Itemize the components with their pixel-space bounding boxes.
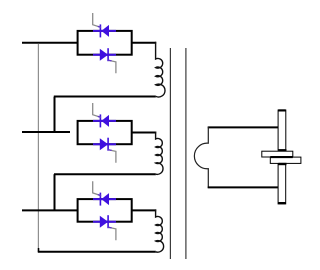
- wire bus bottom black stub: [38, 248, 40, 252]
- thyristor module box Q3: [78, 199, 132, 222]
- wire box2 output: [132, 132, 157, 134]
- winding W1 primary coil: [156, 42, 165, 97]
- wire phase A input: [22, 42, 78, 44]
- thyristor Q1a cathode bar: [99, 24, 101, 37]
- thyristor Q2a gate tip: [98, 116, 101, 117]
- thyristor Q1a lead: [93, 30, 116, 32]
- thyristor Q3a gate lead: [93, 181, 101, 195]
- thyristor Q3b gate tip: [108, 226, 111, 229]
- thyristor Q1a gate tip: [98, 26, 101, 27]
- thyristor module box Q1: [78, 31, 132, 55]
- thyristor Q1b gate tip: [108, 59, 111, 62]
- thyristor Q1b triangle: [100, 49, 108, 61]
- thyristor Q2a gate lead: [93, 103, 101, 117]
- battery junction bar top: [278, 149, 286, 151]
- transformer core line 1: [169, 48, 171, 259]
- wire W1 bottom: [54, 96, 156, 98]
- wire W2 bottom: [54, 173, 156, 175]
- wire box3 output: [132, 209, 157, 211]
- thyristor Q2a lead: [93, 120, 116, 122]
- battery stem upper: [278, 110, 286, 150]
- thyristor Q3a cathode bar: [99, 193, 101, 206]
- battery plate lower: [270, 157, 301, 163]
- winding W3 primary coil: [156, 209, 164, 252]
- thyristor Q2a cathode bar: [99, 114, 101, 127]
- thyristor Q1b gate lead: [108, 60, 116, 73]
- wire return bus (gray vertical): [37, 44, 39, 249]
- transformer core line 2: [185, 48, 187, 259]
- thyristor Q3b cathode bar: [107, 215, 109, 228]
- battery plate upper: [262, 151, 293, 157]
- thyristor Q3b triangle: [100, 216, 108, 228]
- battery stem upper top cap: [278, 109, 285, 111]
- thyristor Q3a triangle: [101, 193, 109, 205]
- wire W1 to phase B: [54, 97, 56, 133]
- wire phase B input: [22, 131, 70, 133]
- thyristor Q2b gate tip: [108, 149, 111, 152]
- winding W4 secondary: [194, 127, 208, 188]
- wire secondary bottom: [208, 186, 278, 188]
- wire secondary top: [208, 126, 278, 128]
- battery stem lower: [278, 163, 286, 204]
- thyristor Q3a gate tip: [98, 195, 101, 196]
- battery stem lower bottom cap: [278, 202, 285, 204]
- wire box1 output: [132, 42, 157, 44]
- thyristor Q3b lead: [93, 221, 116, 223]
- thyristor Q1b lead: [93, 54, 116, 56]
- wire W3 bottom return: [38, 251, 156, 253]
- battery junction bar bottom: [278, 163, 286, 165]
- thyristor Q1a triangle: [101, 25, 109, 37]
- thyristor Q2b cathode bar: [107, 138, 109, 151]
- thyristor Q2b triangle: [100, 138, 108, 150]
- wire phase C input: [22, 209, 78, 211]
- thyristor Q2b gate lead: [108, 150, 116, 163]
- thyristor Q1a gate lead: [93, 13, 101, 27]
- battery middle edge: [270, 156, 293, 158]
- wire W2 to phase C: [54, 174, 56, 210]
- thyristor Q3a lead: [93, 198, 116, 200]
- winding W2 primary coil: [156, 132, 163, 175]
- thyristor Q3b gate lead: [108, 227, 116, 240]
- thyristor Q2b lead: [93, 143, 116, 145]
- thyristor module box Q2: [78, 121, 132, 144]
- thyristor Q1b cathode bar: [107, 48, 109, 61]
- thyristor Q2a triangle: [101, 115, 109, 127]
